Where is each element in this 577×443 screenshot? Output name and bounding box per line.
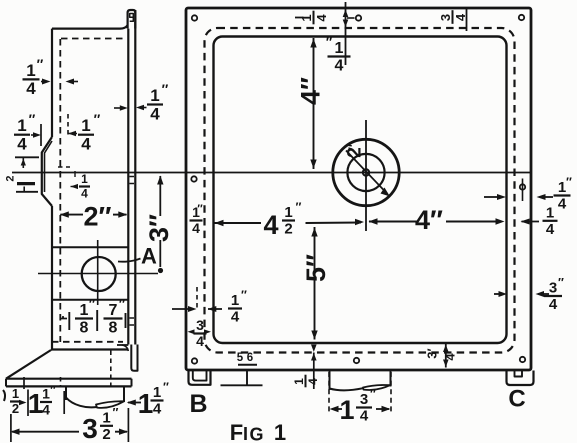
svg-text:7: 7 — [109, 302, 118, 319]
svg-text:4: 4 — [558, 196, 567, 213]
svg-text:3: 3 — [196, 317, 204, 333]
svg-text:″: ″ — [558, 276, 564, 290]
svg-text:″: ″ — [241, 288, 247, 302]
svg-text:4: 4 — [231, 309, 240, 326]
svg-text:2: 2 — [284, 221, 292, 238]
svg-text:1: 1 — [546, 204, 554, 221]
svg-text:1: 1 — [80, 302, 89, 319]
svg-text:1: 1 — [335, 40, 344, 57]
svg-text:4: 4 — [153, 401, 162, 418]
svg-text:2: 2 — [12, 401, 19, 416]
svg-text:4: 4 — [26, 79, 36, 98]
svg-text:4: 4 — [81, 186, 88, 200]
svg-text:″: ″ — [113, 406, 119, 420]
svg-text:A: A — [141, 244, 157, 269]
svg-text:″: ″ — [89, 297, 96, 312]
svg-text:″: ″ — [163, 380, 169, 394]
svg-text:F: F — [230, 420, 243, 443]
svg-text:″: ″ — [119, 297, 126, 312]
svg-text:″: ″ — [197, 203, 203, 215]
svg-text:3: 3 — [438, 14, 453, 21]
svg-text:G: G — [249, 425, 263, 443]
svg-text:5: 5 — [237, 352, 244, 364]
svg-text:1: 1 — [17, 116, 26, 135]
svg-text:4: 4 — [546, 221, 555, 238]
svg-text:1: 1 — [150, 86, 159, 105]
svg-text:8: 8 — [80, 319, 89, 336]
svg-text:4: 4 — [335, 57, 344, 74]
svg-text:4: 4 — [192, 220, 200, 236]
svg-text:8: 8 — [109, 319, 118, 336]
svg-text:″: ″ — [566, 175, 572, 189]
svg-text:5″: 5″ — [301, 254, 331, 282]
svg-text:4: 4 — [81, 134, 91, 153]
svg-text:4: 4 — [360, 408, 369, 425]
svg-text:3″: 3″ — [144, 214, 174, 242]
svg-text:3: 3 — [549, 280, 557, 297]
svg-text:1: 1 — [12, 386, 19, 401]
svg-text:1: 1 — [81, 116, 90, 135]
svg-text:″: ″ — [296, 200, 302, 214]
svg-text:″: ″ — [37, 56, 44, 72]
svg-text:″: ″ — [50, 384, 56, 396]
svg-text:4: 4 — [263, 210, 278, 240]
svg-text:2: 2 — [5, 175, 17, 181]
svg-text:1: 1 — [292, 378, 306, 385]
svg-text:″: ″ — [346, 144, 361, 150]
svg-text:1: 1 — [231, 292, 239, 309]
svg-text:4: 4 — [443, 353, 458, 361]
svg-text:1: 1 — [153, 384, 161, 401]
svg-text:I: I — [243, 424, 248, 443]
svg-text:1: 1 — [28, 388, 44, 419]
svg-text:1: 1 — [339, 395, 354, 425]
svg-text:″: ″ — [162, 81, 169, 97]
svg-text:″: ″ — [94, 111, 101, 127]
svg-text:1: 1 — [26, 61, 35, 80]
svg-text:1: 1 — [284, 204, 292, 221]
svg-text:3: 3 — [82, 413, 98, 443]
svg-text:3: 3 — [360, 391, 368, 408]
svg-text:6: 6 — [247, 352, 253, 364]
svg-text:4: 4 — [196, 333, 204, 349]
svg-text:″: ″ — [29, 111, 36, 127]
svg-text:2: 2 — [102, 426, 110, 443]
svg-text:1: 1 — [42, 386, 50, 402]
svg-text:2″: 2″ — [84, 202, 112, 232]
svg-text:3′: 3′ — [425, 348, 440, 358]
svg-text:4: 4 — [306, 378, 320, 385]
svg-text:4: 4 — [42, 401, 50, 417]
svg-text:1: 1 — [138, 388, 154, 419]
svg-text:″: ″ — [326, 35, 333, 50]
svg-text:4: 4 — [17, 134, 27, 153]
svg-text:4: 4 — [150, 104, 160, 123]
svg-text:4″: 4″ — [415, 205, 443, 235]
svg-text:4: 4 — [314, 14, 329, 22]
svg-text:1: 1 — [102, 409, 110, 426]
svg-text:4: 4 — [549, 296, 558, 313]
svg-text:4″: 4″ — [296, 77, 326, 105]
svg-text:1: 1 — [558, 179, 566, 196]
svg-text:C: C — [508, 386, 525, 413]
svg-text:B: B — [189, 390, 207, 418]
svg-text:1: 1 — [81, 172, 88, 186]
svg-text:1: 1 — [274, 420, 286, 443]
